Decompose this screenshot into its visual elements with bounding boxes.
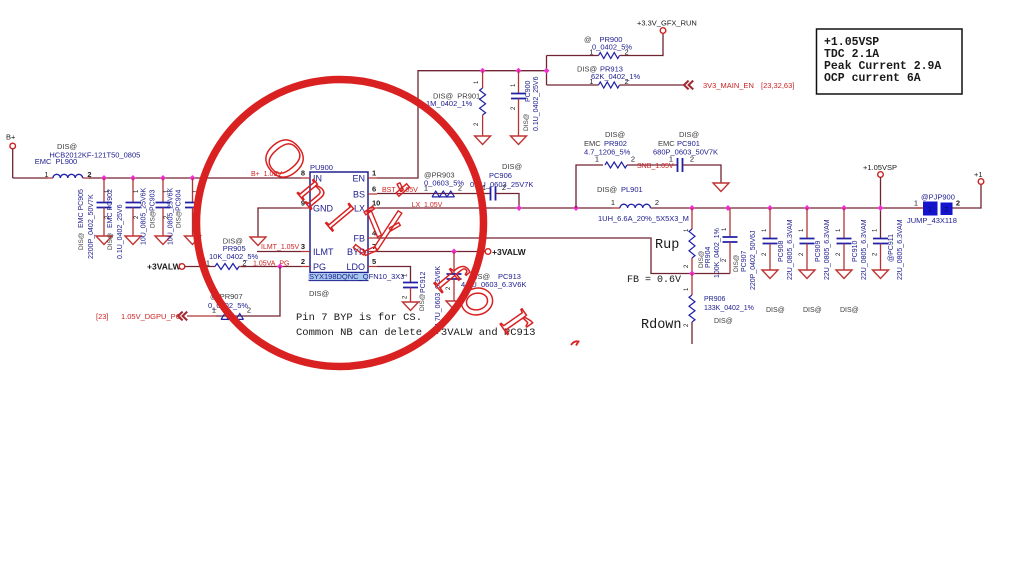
svg-text:DIS@: DIS@ [698, 250, 705, 268]
svg-text:DIS@: DIS@ [714, 318, 733, 325]
wire B+ 1.05V rail [89, 177, 301, 179]
resistor PR900 [599, 53, 620, 59]
capacitor PC910 [837, 239, 852, 244]
svg-text:EMC PL900: EMC PL900 [35, 157, 78, 166]
svg-text:ILMT: ILMT [313, 247, 334, 257]
capacitor PC901 [678, 158, 683, 172]
info box frame [817, 29, 963, 94]
wire PR913 to offpage [620, 84, 685, 86]
junction LX at snubber [573, 205, 579, 211]
watermark letter o [459, 285, 495, 318]
junction at PC900 [516, 68, 522, 74]
capacitor PC908 [763, 239, 778, 244]
svg-text:3: 3 [301, 242, 305, 251]
svg-text:Pin 7 BYP is for CS.: Pin 7 BYP is for CS. [296, 312, 422, 324]
wire PC900 bottom [518, 99, 520, 137]
offpage connector 3V3_MAIN_EN [684, 81, 693, 90]
capacitor PC903 [156, 203, 171, 208]
wire PC911 bottom [880, 244, 882, 271]
svg-text:SNB_1.05V: SNB_1.05V [637, 163, 674, 170]
wire +1.05VSP drop [880, 177, 882, 238]
wire LX rail [377, 207, 612, 209]
svg-text:22U_0805_6.3VAM: 22U_0805_6.3VAM [861, 219, 868, 280]
junction rail at PR904 [689, 205, 695, 211]
resistor PR906 [689, 295, 695, 322]
svg-text:1M_0402_1%: 1M_0402_1% [426, 99, 473, 108]
svg-text:DIS@: DIS@ [419, 293, 426, 311]
svg-text:PR906: PR906 [704, 296, 726, 303]
svg-text:@: @ [584, 35, 592, 44]
wire B+ rail to inductor [13, 177, 48, 179]
svg-text:EMC PC905: EMC PC905 [78, 189, 85, 228]
wire ILMT_1.05V [257, 251, 301, 253]
svg-text:DIS@: DIS@ [605, 130, 625, 139]
svg-text:+3VALW: +3VALW [147, 262, 182, 272]
junction FB node [689, 271, 695, 277]
svg-text:1: 1 [611, 198, 615, 207]
svg-text:DIS@: DIS@ [502, 162, 522, 171]
wire PC910 bottom [843, 244, 845, 271]
wire LDO to PC912 [377, 267, 411, 283]
svg-text:1.05V_DGPU_PG: 1.05V_DGPU_PG [121, 312, 182, 321]
wire PC900 top [518, 71, 520, 94]
wire PC905 top [103, 178, 105, 203]
wire rail to jumper [917, 207, 923, 209]
wire PC906 to LX [496, 194, 520, 209]
resistor PR904 [689, 229, 695, 258]
resistor PR913 [599, 82, 620, 88]
svg-text:PC910: PC910 [852, 240, 859, 262]
capacitor PC906 [491, 187, 496, 201]
svg-text:2: 2 [301, 257, 305, 266]
resistor PR901 [480, 88, 486, 115]
svg-text:EN: EN [352, 174, 365, 184]
junction rail at PC908 [767, 205, 773, 211]
wire output rail [650, 207, 922, 209]
inductor PL900 pin stubs [45, 177, 91, 179]
svg-text:22U_0805_6.3VAM: 22U_0805_6.3VAM [897, 219, 904, 280]
svg-text:FB: FB [353, 234, 365, 244]
svg-text:0_0603_5%: 0_0603_5% [424, 179, 464, 188]
wire PC913 top [453, 252, 455, 276]
svg-text:OCP current 6A: OCP current 6A [824, 72, 921, 85]
svg-text:0.1U_0402_25V6: 0.1U_0402_25V6 [117, 204, 124, 259]
svg-text:2: 2 [655, 198, 659, 207]
ground under PC912 [403, 302, 419, 311]
wire PR906 top [691, 274, 693, 296]
wire PR913 pin1 lead [547, 84, 599, 86]
svg-text:PC907: PC907 [741, 250, 748, 272]
ground under PC905 [96, 236, 112, 245]
wire snubber riser [576, 165, 603, 208]
wire PC902 top [132, 178, 134, 203]
svg-text:[23,32,63]: [23,32,63] [761, 81, 794, 90]
svg-text:@PJP900: @PJP900 [921, 193, 955, 202]
svg-text:PC903: PC903 [150, 189, 157, 211]
wire PC909 bottom [806, 244, 808, 271]
wire PC901 to ground [683, 165, 722, 183]
svg-text:Rup: Rup [655, 238, 679, 253]
svg-text:2: 2 [945, 207, 949, 214]
jumper PJP900 pad 2 [941, 203, 953, 216]
svg-text:0.1U_0402_25V6: 0.1U_0402_25V6 [533, 76, 540, 131]
wire PG to PR907 branch [216, 267, 280, 317]
wire PR901 bottom [482, 115, 484, 136]
svg-text:100K_0402_1%: 100K_0402_1% [714, 228, 721, 278]
junction rail at PC910 [841, 205, 847, 211]
wire PR905 pin2 lead [239, 266, 246, 268]
svg-text:+3.3V_GFX_RUN: +3.3V_GFX_RUN [637, 19, 697, 28]
node +3VALW terminal right [485, 249, 491, 255]
capacitor PC905 [97, 203, 112, 208]
wire PC904 top [192, 178, 194, 203]
ground under PC903 [155, 236, 171, 245]
svg-text:PG: PG [313, 262, 326, 272]
svg-text:DIS@: DIS@ [107, 232, 114, 250]
svg-text:220P_0402_50V6J: 220P_0402_50V6J [750, 230, 757, 290]
jumper PJP900 pad 1 [923, 202, 938, 216]
svg-text:JUMP_43X118: JUMP_43X118 [907, 216, 957, 225]
svg-text:10U_0805_25V6K: 10U_0805_25V6K [168, 187, 175, 245]
resistor PR905 [215, 264, 239, 270]
svg-text:DIS@: DIS@ [150, 210, 157, 228]
node +3.3V_GFX_RUN terminal [660, 28, 666, 34]
svg-text:PC908: PC908 [778, 240, 785, 262]
svg-text:10U_0805_25V6K: 10U_0805_25V6K [141, 187, 148, 245]
svg-text:2200P_0402_50V7K: 2200P_0402_50V7K [88, 194, 95, 259]
svg-text:LX_1.05V: LX_1.05V [412, 202, 443, 209]
pin stubs left of PU900 [301, 178, 310, 267]
svg-text:3V3_MAIN_EN: 3V3_MAIN_EN [703, 81, 754, 90]
node B+ terminal [10, 143, 16, 149]
svg-text:DIS@: DIS@ [309, 289, 329, 298]
wire PC910 top [843, 208, 845, 239]
svg-text:PC900: PC900 [525, 80, 532, 102]
wire PR900 pin1 lead [547, 55, 599, 57]
wire PR904 bottom [691, 258, 693, 274]
wire B+ vertical [12, 149, 14, 178]
wire +3VALW to PR905 [185, 266, 215, 268]
svg-text:DIS@: DIS@ [176, 210, 183, 228]
offpage connector 1.05V_DGPU_PG [178, 312, 187, 321]
junction on B+ rail at PC904 [190, 175, 196, 181]
wire LX to PL901 [612, 207, 620, 209]
wire PC908 bottom [769, 244, 771, 271]
inductor PL900 [53, 174, 83, 178]
wire PC905 bottom [103, 208, 105, 237]
svg-text:Rdown: Rdown [641, 318, 682, 333]
capacitor PC909 [800, 239, 815, 244]
capacitor PC911 [873, 239, 888, 244]
svg-text:[23]: [23] [96, 312, 109, 321]
svg-text:22U_0805_6.3VAM: 22U_0805_6.3VAM [787, 219, 794, 280]
ground under PC900 [511, 136, 527, 145]
ground under PC902 [125, 236, 141, 245]
svg-text:62K_0402_1%: 62K_0402_1% [591, 72, 641, 81]
svg-text:LDO: LDO [346, 262, 365, 272]
svg-text:DIS@: DIS@ [766, 307, 785, 314]
resistor PR902 [605, 162, 627, 168]
svg-text:ILMT_1.05V: ILMT_1.05V [261, 244, 299, 251]
ground under PC913 [446, 301, 462, 310]
wire PR900 to +3.3V_GFX_RUN [620, 33, 664, 55]
capacitor PC902 [126, 203, 141, 208]
junction rail at PC909 [804, 205, 810, 211]
wire PR901 top [482, 71, 484, 88]
pin stubs right of PU900 [368, 178, 377, 267]
ground at pin 9 [250, 237, 266, 246]
capacitor PC900 [511, 94, 526, 99]
ground under PC909 [799, 270, 815, 279]
svg-text:4.7_1206_5%: 4.7_1206_5% [584, 148, 631, 157]
svg-text:PC906: PC906 [489, 171, 512, 180]
junction EN rail [544, 68, 550, 74]
op-amp U1 body: IC PU900 box [310, 172, 368, 273]
svg-text:PC904: PC904 [176, 189, 183, 211]
svg-text:6: 6 [372, 185, 376, 194]
wire PR907 to offpage [187, 315, 216, 317]
wire FB net [377, 238, 730, 274]
svg-text:PC909: PC909 [815, 240, 822, 262]
wire PC907 bottom [729, 242, 731, 274]
svg-text:DIS@: DIS@ [78, 232, 85, 250]
svg-text:680P_0603_50V7K: 680P_0603_50V7K [653, 148, 718, 157]
wire PR904 top [691, 208, 693, 229]
svg-text:DIS@: DIS@ [597, 185, 617, 194]
svg-text:22U_0805_6.3VAM: 22U_0805_6.3VAM [824, 219, 831, 280]
svg-text:133K_0402_1%: 133K_0402_1% [704, 305, 754, 312]
junction on B+ rail at PC905 [101, 175, 107, 181]
ground under PC911 [873, 270, 889, 279]
wire BYP to +3VALW [377, 251, 485, 253]
resistor PR907 [221, 314, 244, 320]
svg-text:B+: B+ [6, 133, 16, 142]
resistor PR903 [432, 191, 455, 197]
svg-text:1.05VA_PG: 1.05VA_PG [253, 260, 289, 267]
capacitor PC912 [403, 283, 418, 288]
ground under PC910 [836, 270, 852, 279]
wire GND pin9 [258, 208, 301, 237]
capacitor PC904 [185, 203, 200, 208]
ground under PC904 [185, 236, 201, 245]
wire PC904 bottom [192, 208, 194, 237]
svg-text:+1.05VSP: +1.05VSP [863, 163, 897, 172]
junction at PR901 [480, 68, 486, 74]
wire EN net [377, 71, 547, 178]
wire SNB_1.05V [627, 164, 678, 166]
svg-text:1: 1 [928, 207, 932, 214]
wire PC908 top [769, 208, 771, 239]
svg-text:DIS@: DIS@ [733, 254, 740, 272]
watermark circle [197, 80, 484, 367]
wire jumper pin2 to +1.05V stub [953, 184, 982, 208]
inductor PL901 [620, 204, 650, 208]
junction rail at PC907 [725, 205, 731, 211]
capacitor PC913 [447, 274, 462, 279]
svg-text:DIS@: DIS@ [840, 307, 859, 314]
wire PC913 bottom [453, 279, 455, 301]
svg-text:+3VALW: +3VALW [492, 247, 527, 257]
svg-text:1: 1 [372, 169, 376, 178]
junction on B+ rail at PC903 [160, 175, 166, 181]
node +1.05V partial terminal [978, 179, 984, 185]
watermark letter y [353, 183, 409, 256]
watermark stray mark [571, 341, 579, 345]
svg-text:DIS@: DIS@ [803, 307, 822, 314]
svg-text:EMC PC902: EMC PC902 [107, 189, 114, 228]
highlight behind part number [309, 273, 369, 281]
wire PC909 top [806, 208, 808, 239]
svg-text:0_0402_5%: 0_0402_5% [592, 42, 632, 51]
wire PC912 bottom [410, 288, 412, 303]
wire PC902 bottom [132, 208, 134, 237]
wire BS pin to PR903 [377, 193, 491, 195]
svg-text:2: 2 [956, 199, 960, 208]
svg-text:10K_0402_5%: 10K_0402_5% [209, 252, 259, 261]
junction rail at +1.05VSP [878, 205, 884, 211]
svg-text:PR904: PR904 [705, 246, 712, 268]
svg-text:FB = 0.6V: FB = 0.6V [627, 275, 681, 286]
svg-text:2: 2 [631, 155, 635, 164]
svg-text:1: 1 [914, 199, 918, 208]
svg-text:+1: +1 [974, 170, 983, 179]
junction LX at PC906 drop [516, 205, 522, 211]
svg-text:5: 5 [372, 257, 376, 266]
junction BYP at PC913 [451, 249, 457, 255]
wire PC907 top [729, 208, 731, 237]
junction on B+ rail at PC902 [130, 175, 136, 181]
wire PR906 bottom [691, 322, 693, 344]
ground under PC901 [713, 183, 729, 192]
wire 1.05VA_PG [241, 266, 301, 268]
underline of part number [309, 280, 369, 282]
svg-text:SYX198DQNC_QFN10_3X3: SYX198DQNC_QFN10_3X3 [309, 272, 404, 281]
node +1.05VSP terminal [878, 172, 884, 178]
svg-text:1: 1 [44, 170, 48, 179]
capacitor PC907 [723, 237, 738, 242]
wire vertical to PR900 PR913 [546, 56, 548, 86]
svg-text:@PC911: @PC911 [888, 234, 895, 262]
junction 1.05VA_PG [277, 264, 283, 270]
ground under PR901 [475, 136, 491, 145]
svg-text:DIS@: DIS@ [523, 113, 530, 131]
wire PC903 bottom [162, 208, 164, 237]
node +3VALW terminal [179, 264, 185, 270]
svg-text:DIS@: DIS@ [679, 130, 699, 139]
ground under PC908 [762, 270, 778, 279]
wire PC903 top [162, 178, 164, 203]
svg-text:1UH_6.6A_20%_5X5X3_M: 1UH_6.6A_20%_5X5X3_M [598, 214, 689, 223]
svg-text:PL901: PL901 [621, 185, 643, 194]
